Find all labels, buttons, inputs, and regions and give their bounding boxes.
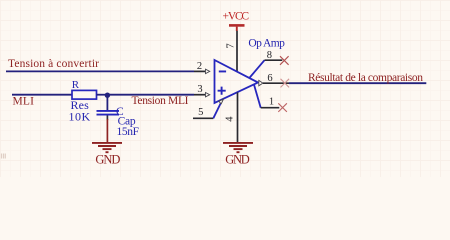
pin 8 diagonal stub bbox=[249, 60, 264, 78]
pin 7 of U1 (V+) bbox=[236, 31, 238, 72]
pin 1 of U1 bbox=[261, 107, 280, 109]
pin 5 of U1 bbox=[193, 117, 213, 119]
svg-text:R: R bbox=[72, 79, 80, 91]
svg-text:GND: GND bbox=[95, 153, 120, 167]
svg-text:Op Amp: Op Amp bbox=[248, 37, 285, 49]
wire junction to capacitor C bbox=[106, 95, 108, 110]
wire net Tension à convertir to pin 2 bbox=[6, 70, 194, 72]
svg-text:8: 8 bbox=[267, 50, 272, 61]
svg-text:Tension à convertir: Tension à convertir bbox=[8, 58, 99, 70]
ground GND under op-amp bbox=[223, 143, 253, 152]
no-ERC cross pin 8 bbox=[280, 56, 289, 65]
op-amp plus symbol bbox=[218, 87, 226, 95]
op-amp output marker bbox=[259, 80, 263, 85]
svg-text:MLI: MLI bbox=[13, 95, 35, 107]
op-amp minus symbol bbox=[219, 71, 226, 73]
pin 1 diagonal stub bbox=[254, 85, 261, 108]
wire resistor to junction bbox=[97, 94, 108, 96]
ground GND under capacitor bbox=[92, 143, 122, 152]
pin 5 marker bbox=[219, 99, 224, 104]
svg-text:15nF: 15nF bbox=[117, 126, 140, 138]
pin 2 of U1 bbox=[194, 70, 205, 72]
junction node Tension MLI bbox=[105, 93, 110, 98]
svg-text:7: 7 bbox=[225, 43, 236, 48]
svg-text:3: 3 bbox=[197, 84, 202, 95]
op-amp U1 Op Amp bbox=[215, 60, 259, 103]
pin 8 of U1 bbox=[265, 59, 283, 61]
pin 4 of U1 (V-) bbox=[237, 92, 239, 142]
pin 2 input marker bbox=[206, 69, 210, 73]
wire capacitor to ground bbox=[106, 116, 108, 121]
pin 6 of U1 (output) bbox=[263, 82, 289, 84]
svg-text:6: 6 bbox=[267, 73, 272, 84]
pin 5 diagonal stub bbox=[213, 99, 222, 118]
svg-text:1: 1 bbox=[269, 96, 274, 107]
+VCC bar symbol bbox=[229, 24, 245, 27]
svg-text:Résultat de la comparaison: Résultat de la comparaison bbox=[308, 72, 423, 84]
svg-text:Tension MLI: Tension MLI bbox=[132, 95, 189, 107]
svg-text:+VCC: +VCC bbox=[223, 10, 250, 22]
svg-text:4: 4 bbox=[225, 116, 236, 122]
svg-text:10K: 10K bbox=[69, 110, 91, 124]
wire net Résultat de la comparaison bbox=[289, 82, 426, 84]
edge artifact marks bottom-left bbox=[2, 154, 6, 159]
capacitor C bbox=[97, 111, 120, 115]
svg-text:2: 2 bbox=[197, 61, 202, 72]
wire junction to pin 3 bbox=[107, 94, 194, 96]
svg-text:GND: GND bbox=[225, 153, 250, 167]
no-ERC cross pin 1 bbox=[278, 103, 287, 112]
wire net MLI to resistor R bbox=[12, 94, 72, 96]
pin 3 of U1 bbox=[194, 94, 205, 96]
svg-text:5: 5 bbox=[198, 107, 203, 118]
sheet background bbox=[0, 0, 450, 177]
pin 3 input marker bbox=[206, 93, 210, 97]
resistor R bbox=[72, 90, 97, 99]
no-ERC cross pin 6 bbox=[281, 79, 290, 88]
